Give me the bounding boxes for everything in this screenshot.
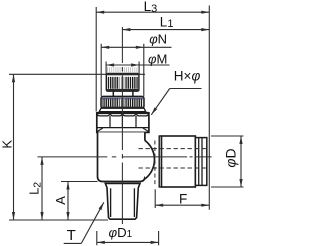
hex bottom edge [97,127,149,129]
svg-text:A: A [53,196,68,205]
knob (adjusting screw, dia M) [106,73,139,91]
knob top cap (knurl end view) [106,67,139,72]
wire horizontal centerline [38,156,212,158]
knob neck [112,91,114,96]
tube bore hidden lines [139,148,207,150]
dimension L3 [95,7,97,112]
svg-text:φD: φD [222,148,238,167]
threaded stud T [105,183,140,219]
elbow ball joint [145,140,155,179]
svg-text:L1: L1 [160,14,174,30]
svg-text:K: K [0,140,14,149]
dimension dia D (tube) [211,135,244,137]
svg-text:F: F [179,192,187,207]
fitting barrel [162,136,196,187]
svg-text:φD1: φD1 [109,225,133,240]
dimension L1 [122,29,209,31]
dimension A [61,181,98,183]
dimension dia N [100,44,102,97]
svg-text:T: T [67,227,76,244]
release collar [195,138,206,186]
lock nut (dia N) [101,96,144,108]
svg-text:L2: L2 [27,182,44,195]
svg-text:φN: φN [149,31,167,46]
dimension K [9,73,145,75]
svg-text:H×φ: H×φ [174,69,201,84]
dimension dia D1 (body) [96,231,98,245]
dimension dia M [105,62,107,76]
svg-text:L3: L3 [144,0,158,15]
hex flats H [97,113,149,132]
dimension F [154,189,156,208]
thread root lines [110,188,112,217]
dimension L2 [41,157,43,220]
ball-fitting hidden edge [154,141,156,187]
valve body [98,132,145,181]
fitting flange [159,136,161,187]
wire vertical centerline [121,27,123,225]
svg-text:φM: φM [148,51,167,66]
lock nut skirt [99,108,146,112]
